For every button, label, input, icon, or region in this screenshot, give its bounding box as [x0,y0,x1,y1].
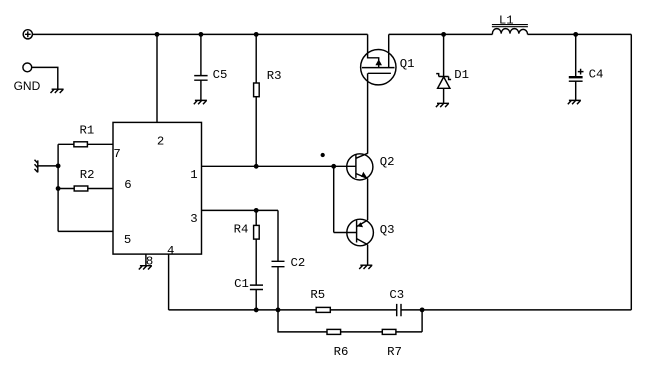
svg-text:Q3: Q3 [380,223,395,237]
resistor R4 body [254,225,260,239]
transistor Q2 circle [347,154,373,180]
svg-text:R3: R3 [267,69,282,83]
wire left bus vertical R1-R2-pin5 [57,144,59,231]
svg-text:R2: R2 [80,168,95,182]
capacitor C1 lead bottom [255,290,257,310]
resistor R6 body [327,329,341,334]
wire lower R6R7 branch [278,310,422,332]
wire bottom feedback row [169,309,632,311]
Q3 emitter diagonal (from Q2) [357,220,368,227]
svg-text:C3: C3 [389,288,404,302]
capacitor C5 lead bottom [200,80,202,100]
ground (C5) [194,100,207,104]
node dot pin3/R4 [255,209,258,212]
svg-text:Q1: Q1 [400,57,415,71]
node dot top rail / R3 [255,33,258,36]
svg-text:D1: D1 [454,68,469,82]
Q1 source arrow [375,59,382,65]
node dot bus/R2 [56,187,59,190]
Q2 emitter arrow [361,172,367,178]
terminal GND circle [23,63,32,72]
IC pin4 wire down [168,254,170,310]
svg-text:C4: C4 [589,68,604,82]
resistor R2 body [74,186,88,191]
capacitor C4 lead top [575,34,577,76]
node dot top rail / C4 [574,33,577,36]
wire top rail Vin to Q1 source [32,33,367,35]
resistor R1 wire [58,143,113,145]
capacitor C3 plates [397,304,401,316]
node dot bottom/C1 [255,308,258,311]
node dot bottom/C2 [276,308,279,311]
Q1 gate lead to Q2 collector [367,73,369,153]
IC U1 body [113,122,202,254]
Q3 collector diagonal [357,239,368,245]
svg-text:R5: R5 [310,288,325,302]
terminal + (Vin) [23,30,32,39]
wire GND terminal to ground [32,67,58,88]
Q3 base branch vertical [333,166,335,232]
svg-text:7: 7 [113,147,120,161]
Q3 collector lead [367,245,369,265]
resistor R4 lead top [255,210,257,225]
diode D1 lead top [443,34,445,77]
svg-text:4: 4 [167,244,174,258]
svg-text:C1: C1 [234,277,249,291]
Q1 source lead [368,34,379,67]
svg-text:R6: R6 [334,345,349,359]
Q2 base bar [355,154,357,178]
resistor R3 lead bottom [255,97,257,167]
IC pin8 stub [145,254,147,265]
ground (GND terminal) [51,89,64,93]
ground (pin8) [139,266,152,270]
node dot bus/squiggle [56,164,59,167]
Q3 base bar [356,220,358,242]
svg-text:R4: R4 [234,223,249,237]
svg-text:C5: C5 [213,68,228,82]
resistor R3 body [254,83,260,97]
wire pin2 drop from top rail [156,34,158,122]
wire top rail Q1 drain to right edge [389,33,632,35]
wire right edge vertical [630,34,632,310]
resistor R3 lead top [255,34,257,83]
inductor L1 core lines [492,25,528,27]
wire C2 branch vertical [277,210,279,261]
wire pin5 row [58,230,113,232]
svg-text:R7: R7 [387,345,402,359]
Q2 emitter lead down to Q3 [367,179,369,221]
node dot top rail / pin2 [155,33,158,36]
svg-text:C2: C2 [291,256,306,270]
resistor R5 body [316,307,330,312]
wire left squiggle to bus [38,165,58,167]
node dot bottom/C3-R7 [420,308,423,311]
ground (C4) [568,100,581,104]
Q3 emitter arrow [357,222,363,227]
diode D1 schottky cathode bar [436,74,451,80]
svg-text:5: 5 [124,233,131,247]
capacitor C5 lead top [200,34,202,75]
capacitor C2 plates [272,261,285,266]
node dot pin1/Q3 base branch [332,165,335,168]
svg-text:L1: L1 [499,13,514,27]
svg-text:6: 6 [124,178,131,192]
ground (D1) [436,103,449,107]
capacitor C4 plates [569,76,583,78]
resistor R4 lead bottom [255,239,257,285]
capacitor C1 plates [250,285,263,289]
resistor R7 body [382,329,396,334]
node dot top rail / C5 [199,33,202,36]
svg-text:GND: GND [14,79,41,93]
capacitor C4 lead bottom [575,81,577,100]
Q1 drain lead [388,34,390,67]
svg-text:Q2: Q2 [380,155,395,169]
ground (Q3) [359,265,372,269]
node dot pin1/R3 [255,165,258,168]
Q2 collector diagonal [356,153,368,158]
Q1 gate bar [368,72,391,74]
capacitor C2 lead bottom [277,267,279,310]
inductor L1 humps [492,29,527,35]
capacitor C5 plates [194,76,207,81]
ground rotated left [35,160,38,173]
transistor Q3 circle [347,219,374,246]
svg-text:1: 1 [190,168,197,182]
stray dot [321,154,324,157]
capacitor C4 plus sign [578,69,584,75]
resistor R2 wire [58,188,113,190]
Q3 base wire [334,232,357,234]
svg-text:R1: R1 [80,124,95,138]
wire pin1 row [202,165,356,167]
node dot top rail / D1 [442,33,445,36]
Q2 emitter diagonal [356,174,368,179]
resistor R1 body [74,142,88,147]
wire pin3 row [202,209,279,211]
diode D1 triangle [438,77,450,88]
svg-text:3: 3 [190,212,197,226]
svg-text:2: 2 [157,134,164,148]
diode D1 lead bottom [443,88,445,103]
transistor Q1 circle [361,49,396,84]
Q1 channel bar [362,67,395,69]
svg-text:8: 8 [146,255,153,269]
